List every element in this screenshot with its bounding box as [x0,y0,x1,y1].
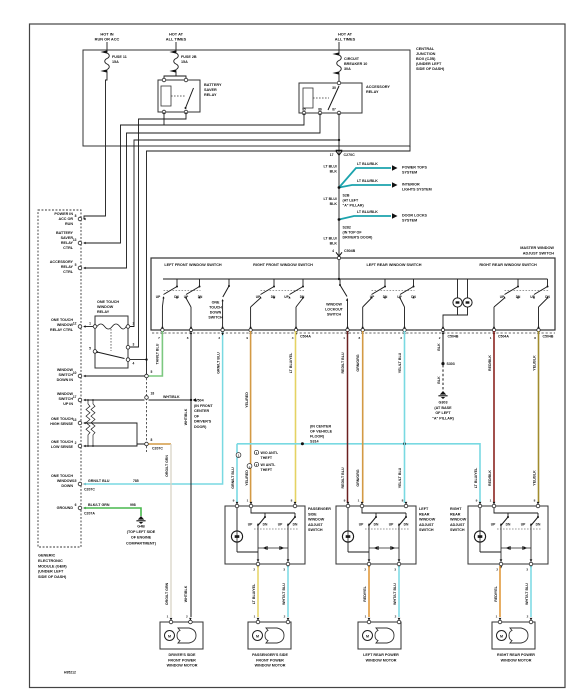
wire WHT/LT BLU left rear switch to motor [398,566,400,617]
svg-text:ONE TOUCH: ONE TOUCH [51,474,73,478]
svg-text:LT BLU/YEL: LT BLU/YEL [474,467,478,488]
svg-text:15A: 15A [112,60,119,64]
svg-text:LOCKOUT: LOCKOUT [325,308,344,312]
svg-text:(AT LEFT: (AT LEFT [343,199,360,203]
GEM pin 13 [78,421,82,425]
svg-text:WINDOW: WINDOW [308,518,325,522]
branch wire to interior lights system [339,185,391,188]
svg-text:YEL/LT BLU: YEL/LT BLU [398,467,402,488]
svg-text:RIGHT REAR POWER: RIGHT REAR POWER [497,653,535,657]
svg-text:RIGHT: RIGHT [450,507,462,511]
svg-text:M: M [500,634,503,638]
accessory relay coil [303,88,313,108]
svg-text:UP: UP [278,523,283,527]
svg-text:LT BLU/BLK: LT BLU/BLK [357,210,378,214]
svg-text:3: 3 [400,336,402,340]
svg-text:BLK: BLK [437,343,441,351]
wire YEL/RED master to passenger switch [250,331,252,503]
left rear switch diodes [368,526,370,560]
svg-text:WHT/BLK: WHT/BLK [184,408,188,425]
wire WHT/BLK master to driver motor [190,331,192,617]
svg-text:ONE TOUCH: ONE TOUCH [51,318,73,322]
window lockout switch [339,279,341,285]
GEM pin 10 [78,374,82,378]
svg-text:DN: DN [374,523,379,527]
passenger front power window motor pins [256,620,260,624]
passenger switch bottom pins [256,562,260,566]
svg-text:WHT/LT BLU: WHT/LT BLU [393,583,397,605]
right front switch contacts [273,279,275,287]
svg-text:1: 1 [167,615,169,619]
wire GEM pin 12 to relay pin 1 [84,326,93,328]
svg-text:8: 8 [75,214,77,218]
svg-text:9: 9 [344,499,346,503]
svg-text:SWITCH: SWITCH [208,316,223,320]
svg-text:ACCESSORY: ACCESSORY [366,85,390,89]
svg-text:M: M [256,634,259,638]
svg-text:ALL TIMES: ALL TIMES [335,37,356,42]
svg-text:C504A: C504A [300,335,311,339]
svg-text:WINDOW: WINDOW [97,305,114,309]
svg-text:(UNDER LEFT: (UNDER LEFT [416,62,442,66]
right rear switch contacts [517,279,519,287]
svg-text:S314: S314 [310,440,320,444]
svg-text:1: 1 [490,336,492,340]
svg-text:7: 7 [158,336,160,340]
svg-text:DOWN: DOWN [210,311,222,315]
svg-text:2: 2 [133,322,135,326]
svg-text:8: 8 [534,499,536,503]
svg-text:1: 1 [247,499,249,503]
svg-text:(IN CENTER: (IN CENTER [310,425,331,429]
ground G303 [440,391,446,395]
driver front power window motor symbol [165,631,175,641]
svg-text:9: 9 [233,499,235,503]
svg-text:WINDOW: WINDOW [57,323,74,327]
passenger window adjust switch box [225,506,305,564]
svg-text:WHT/BLK: WHT/BLK [184,585,188,602]
svg-text:CENTRAL: CENTRAL [416,47,435,51]
svg-text:YEL/LT BLU: YEL/LT BLU [398,352,402,373]
passenger switch blades [258,517,266,526]
wire hot feed 2 drop [175,42,177,52]
svg-text:H95212: H95212 [64,671,76,675]
battery saver relay box [158,80,200,112]
svg-text:C207C: C207C [84,488,95,492]
wire LT BLU/YEL passenger switch to motor [257,566,259,617]
wire RED/YEL right rear switch to motor [499,566,501,617]
wire GRN/ORG master to left rear switch [362,331,364,503]
connector row pin arrows [161,333,164,336]
svg-text:9: 9 [476,499,478,503]
svg-text:3: 3 [394,568,396,572]
svg-text:6: 6 [75,503,77,507]
svg-text:YEL/RED: YEL/RED [245,392,249,408]
svg-text:SWITCH: SWITCH [327,313,342,317]
svg-text:5: 5 [151,370,153,374]
accessory relay box [299,83,362,113]
driver front power window motor box [160,622,203,649]
svg-text:"A" PILLAR): "A" PILLAR) [432,416,454,420]
svg-text:RED/YEL: RED/YEL [494,585,498,601]
passenger switch bottom runs [237,551,258,553]
svg-text:DN: DN [383,295,388,299]
svg-text:12: 12 [73,321,77,325]
svg-text:RUN: RUN [65,222,73,226]
branch wire to power tops system [339,168,391,188]
GEM pin 5 [78,266,82,270]
connector pin 5 window switch down [145,374,149,378]
svg-text:10: 10 [73,371,77,375]
left front switch contacts [176,279,178,287]
svg-text:INTERIOR: INTERIOR [402,183,420,187]
wire connector pin 18 to master switch via W504 [149,399,192,401]
svg-text:DN: DN [174,295,179,299]
svg-text:2: 2 [364,568,366,572]
svg-text:17: 17 [73,395,77,399]
svg-text:POWER IN: POWER IN [54,212,73,216]
svg-text:RIGHT REAR WINDOW SWITCH: RIGHT REAR WINDOW SWITCH [479,263,537,267]
svg-text:GENERIC: GENERIC [38,554,56,558]
bulb ground run [443,307,458,330]
wire GEM pin 17 to connector pin 18 [84,399,145,401]
svg-text:WINDOW: WINDOW [57,392,74,396]
svg-text:DOWN IN: DOWN IN [57,378,74,382]
connector pin 8 one touch sense [145,442,149,446]
wire fuse 11 to GEM pin 8 [84,72,107,220]
wire WHT/LT BLU passenger switch to motor [287,566,289,617]
svg-text:GRN/LT BLU: GRN/LT BLU [88,479,110,483]
svg-text:13: 13 [73,238,77,242]
wire battery relay pin 2 to one-touch relay pin 3 staircase [130,112,187,347]
svg-text:785: 785 [133,479,139,483]
svg-text:ONE: ONE [212,301,220,305]
wire relay pin 4 to connector column [130,359,147,361]
left rear switch blades [369,517,377,526]
left rear switch linkage dash [365,528,409,530]
svg-text:C270C: C270C [344,153,356,157]
svg-text:MASTER WINDOW: MASTER WINDOW [520,246,554,250]
passenger switch internal feed [251,508,295,513]
branch wire to door locks system [339,216,391,220]
svg-text:REAR: REAR [450,512,461,516]
svg-text:DN: DN [545,295,550,299]
svg-text:13: 13 [73,418,77,422]
svg-text:2: 2 [253,568,255,572]
svg-text:BOX (CJB): BOX (CJB) [416,57,436,61]
svg-text:GROUND: GROUND [57,506,74,510]
svg-text:FLOOR): FLOOR) [310,435,325,439]
svg-text:UP: UP [521,523,526,527]
left rear switch top pins [346,504,350,508]
right rear power window motor symbol [497,631,507,641]
svg-text:ORG/LT GRN: ORG/LT GRN [165,455,169,477]
svg-text:4: 4 [332,249,334,253]
battery saver relay pins [162,78,166,82]
svg-text:1: 1 [496,615,498,619]
svg-text:BATTERY: BATTERY [56,231,74,235]
svg-text:SWITCH: SWITCH [308,528,323,532]
wire one touch window down GRN/LT BLU [84,331,223,484]
svg-text:C504A: C504A [498,335,509,339]
wire hot feed 1 drop [106,42,108,52]
svg-text:CTRL: CTRL [63,270,74,274]
svg-text:TAN/LT BLU: TAN/LT BLU [156,343,160,364]
svg-text:FUSE 2B: FUSE 2B [181,55,197,59]
svg-text:FRONT POWER: FRONT POWER [168,658,196,662]
right rear switch linkage dash [497,528,541,530]
svg-text:GRN/LT BLU: GRN/LT BLU [231,467,235,489]
svg-text:C504B: C504B [543,335,554,339]
wire accessory output to one-touch relay pin 2 staircase [130,140,340,327]
svg-text:5: 5 [75,263,77,267]
passenger switch diodes [257,526,259,560]
battery saver relay coil [161,86,171,106]
driver front power window motor pins [169,620,173,624]
wire RED/BLK master to right rear switch [493,331,495,503]
svg-text:MODULE (GEM): MODULE (GEM) [38,564,67,568]
svg-text:9: 9 [246,336,248,340]
GEM pin 2 [78,444,82,448]
svg-text:RED/LT BLU: RED/LT BLU [341,467,345,488]
svg-text:ONE TOUCH: ONE TOUCH [97,300,119,304]
svg-text:RUN OR ACC: RUN OR ACC [95,37,120,42]
svg-text:DN: DN [198,295,203,299]
right rear power window motor pins [498,620,502,624]
svg-text:WINDOW: WINDOW [57,479,74,483]
svg-text:DN: DN [293,523,298,527]
master switch top feed pin circle [337,256,340,259]
illumination bulb left [457,279,459,298]
connector row C504 dashed line [152,332,555,334]
passenger switch top pins [235,504,239,508]
svg-text:DRIVER'S DOOR): DRIVER'S DOOR) [343,236,374,240]
right rear switch diodes [500,526,502,560]
wire YEL/LT BLU master to left rear switch [404,331,406,503]
svg-text:DOWN: DOWN [61,484,73,488]
svg-text:15A: 15A [181,60,188,64]
svg-text:FRONT POWER: FRONT POWER [256,658,284,662]
svg-text:SAVER: SAVER [61,236,74,240]
svg-text:DN: DN [404,523,409,527]
svg-text:2: 2 [395,615,397,619]
svg-text:4: 4 [133,362,135,366]
svg-text:BLK: BLK [330,202,338,206]
wire RED/YEL left rear switch to motor [368,566,370,617]
connector pin 18 window switch up [145,396,149,400]
svg-text:RIGHT FRONT WINDOW SWITCH: RIGHT FRONT WINDOW SWITCH [253,263,313,267]
svg-text:2: 2 [186,615,188,619]
master switch output drops [162,298,163,307]
svg-text:BLK: BLK [437,376,441,384]
svg-text:18: 18 [151,392,155,396]
wire accessory relay pin 85 down to bus [164,113,304,125]
left rear power window motor box [358,622,401,649]
svg-text:BLK: BLK [330,242,338,246]
svg-text:RED/LT BLU: RED/LT BLU [341,352,345,373]
svg-text:WINDOW MOTOR: WINDOW MOTOR [366,658,397,662]
wire breaker to accessory relay pin 30 [338,74,340,84]
svg-text:DN: DN [516,295,521,299]
svg-text:3: 3 [283,568,285,572]
svg-text:RELAY: RELAY [366,90,379,94]
svg-text:LT BLU/: LT BLU/ [323,237,337,241]
svg-text:G4B: G4B [137,525,145,529]
svg-text:8: 8 [402,499,404,503]
svg-text:S282: S282 [343,226,351,230]
svg-text:1: 1 [490,499,492,503]
wire WHT/LT BLU right rear switch to motor [530,566,532,617]
accessory relay blade [328,86,339,110]
svg-text:ADJUST SWITCH: ADJUST SWITCH [523,251,554,255]
svg-text:W/ ANTI-: W/ ANTI- [261,463,277,467]
svg-text:BLK: BLK [330,170,338,174]
svg-text:SYSTEM: SYSTEM [402,171,417,175]
svg-text:(TOP LEFT SIDE: (TOP LEFT SIDE [127,530,156,534]
GEM pin 6 [78,506,82,510]
wire RED/LT BLU master to left rear switch [347,331,349,503]
central junction box CJB outline [83,50,410,146]
svg-text:PASSENGER: PASSENGER [308,507,331,511]
svg-text:BREAKER 10: BREAKER 10 [344,62,367,66]
svg-text:SIDE OF DASH): SIDE OF DASH) [416,67,445,71]
wire LT BLU/YEL master to passenger switch [295,331,297,503]
battery saver relay actuator dash [171,95,185,97]
svg-text:C504B: C504B [344,249,356,253]
svg-text:YEL/BLK: YEL/BLK [532,470,536,486]
svg-text:LEFT: LEFT [419,507,429,511]
svg-text:ACC OR: ACC OR [58,217,73,221]
svg-text:RELAY: RELAY [97,310,110,314]
svg-text:ACCESSORY: ACCESSORY [50,260,74,264]
svg-text:C207A: C207A [84,512,95,516]
svg-text:(AT BASE: (AT BASE [434,406,452,410]
svg-text:2: 2 [75,441,77,445]
svg-text:LEFT REAR WINDOW SWITCH: LEFT REAR WINDOW SWITCH [366,263,421,267]
svg-text:POWER TOPS: POWER TOPS [402,166,427,170]
svg-text:DN: DN [263,523,268,527]
svg-text:UP IN: UP IN [63,402,73,406]
master switch internal feed bus [163,278,548,280]
left rear power window motor pins [367,620,371,624]
svg-text:ADJUST: ADJUST [419,523,434,527]
master switch feed pin 4 C504B [336,252,342,256]
svg-text:RELAY: RELAY [61,241,74,245]
svg-text:WHT/BLK: WHT/BLK [163,395,180,399]
svg-text:C207C: C207C [152,447,163,451]
one touch relay coil [97,324,126,329]
left rear switch contacts [384,279,386,287]
right rear switch bottom runs [480,551,501,553]
accessory relay actuator dash [313,97,329,99]
right rear switch top pins [478,504,482,508]
svg-text:DN: DN [536,523,541,527]
wire accessory relay pin 87 down through C270C to master switch [338,113,340,255]
svg-text:HIGH SENSE: HIGH SENSE [50,422,73,426]
left rear power window motor symbol [363,631,373,641]
wire BLK splice to ground dashed [442,365,444,390]
svg-text:15: 15 [73,479,77,483]
svg-text:DOOR LOCKS: DOOR LOCKS [402,214,428,218]
passenger front power window motor symbol [253,631,263,641]
svg-text:(IN FRONT: (IN FRONT [194,404,213,408]
svg-text:LT BLU/BLK: LT BLU/BLK [357,179,378,183]
svg-text:UP: UP [248,523,253,527]
svg-text:DRIVER'S: DRIVER'S [194,420,212,424]
svg-text:WINDOW: WINDOW [326,303,342,307]
svg-text:4: 4 [292,336,294,340]
svg-text:S2B: S2B [343,194,350,198]
svg-text:ADJUST: ADJUST [308,523,323,527]
GEM pin 12 [78,325,82,329]
W504 takeout label [193,398,196,401]
one touch relay pins [93,325,97,329]
wire battery relay pin to GEM pin 3 staircase [84,112,164,243]
left rear switch bottom pins [367,562,371,566]
wire BLK master to ground [442,331,444,364]
fuse symbol body [337,55,342,72]
svg-text:FUSE 11: FUSE 11 [112,55,127,59]
svg-text:SAVER: SAVER [204,88,217,92]
svg-text:OF: OF [194,414,200,418]
door connector C207 dashed boundary [146,366,148,452]
svg-text:LT BLU/: LT BLU/ [323,165,337,169]
svg-text:LT BLU/BLK: LT BLU/BLK [357,162,378,166]
svg-text:3: 3 [133,342,135,346]
svg-text:WHT/LT BLU: WHT/LT BLU [282,583,286,605]
one touch down switch [228,279,230,286]
fuse symbol body [174,53,179,70]
GEM pin 15 [78,482,82,486]
svg-text:CIRCUIT: CIRCUIT [344,57,360,61]
svg-text:RED/BLK: RED/BLK [488,470,492,486]
right rear switch illumination bulb [479,508,481,531]
svg-text:WINDOW: WINDOW [450,518,467,522]
svg-text:8: 8 [358,336,360,340]
svg-text:WINDOW MOTOR: WINDOW MOTOR [255,664,286,668]
svg-text:WINDOW: WINDOW [419,518,436,522]
accessory relay pins [337,81,341,85]
svg-text:JUNCTION: JUNCTION [416,52,436,56]
right rear switch internal feed [494,508,538,513]
svg-text:M: M [366,634,369,638]
svg-text:(UNDER LEFT: (UNDER LEFT [38,570,64,574]
svg-text:"A" PILLAR): "A" PILLAR) [343,204,365,208]
svg-text:87: 87 [332,108,336,112]
feed riser from pin 4 [338,258,340,279]
svg-text:3: 3 [526,568,528,572]
one touch relay blade [97,352,125,359]
passenger switch illumination bulb [236,508,238,531]
svg-text:DN: DN [271,295,276,299]
svg-text:RELAY: RELAY [61,265,74,269]
svg-text:WINDOW MOTOR: WINDOW MOTOR [167,664,198,668]
svg-text:ONE TOUCH: ONE TOUCH [51,440,73,444]
svg-text:ORG/LT GRN: ORG/LT GRN [165,582,169,605]
right rear power window motor box [492,622,535,649]
svg-text:GRN/LT BLU: GRN/LT BLU [216,352,220,374]
svg-text:8: 8 [291,499,293,503]
wire CJB output to door connector column [147,146,411,374]
left rear switch internal feed [362,508,406,513]
svg-text:8: 8 [534,336,536,340]
svg-text:ONE TOUCH: ONE TOUCH [51,417,73,421]
svg-text:WHT/LT BLU: WHT/LT BLU [525,583,529,605]
svg-text:1: 1 [89,322,91,326]
svg-text:2: 2 [284,615,286,619]
svg-text:SWITCH: SWITCH [450,528,465,532]
svg-text:COMPARTMENT): COMPARTMENT) [126,541,157,545]
